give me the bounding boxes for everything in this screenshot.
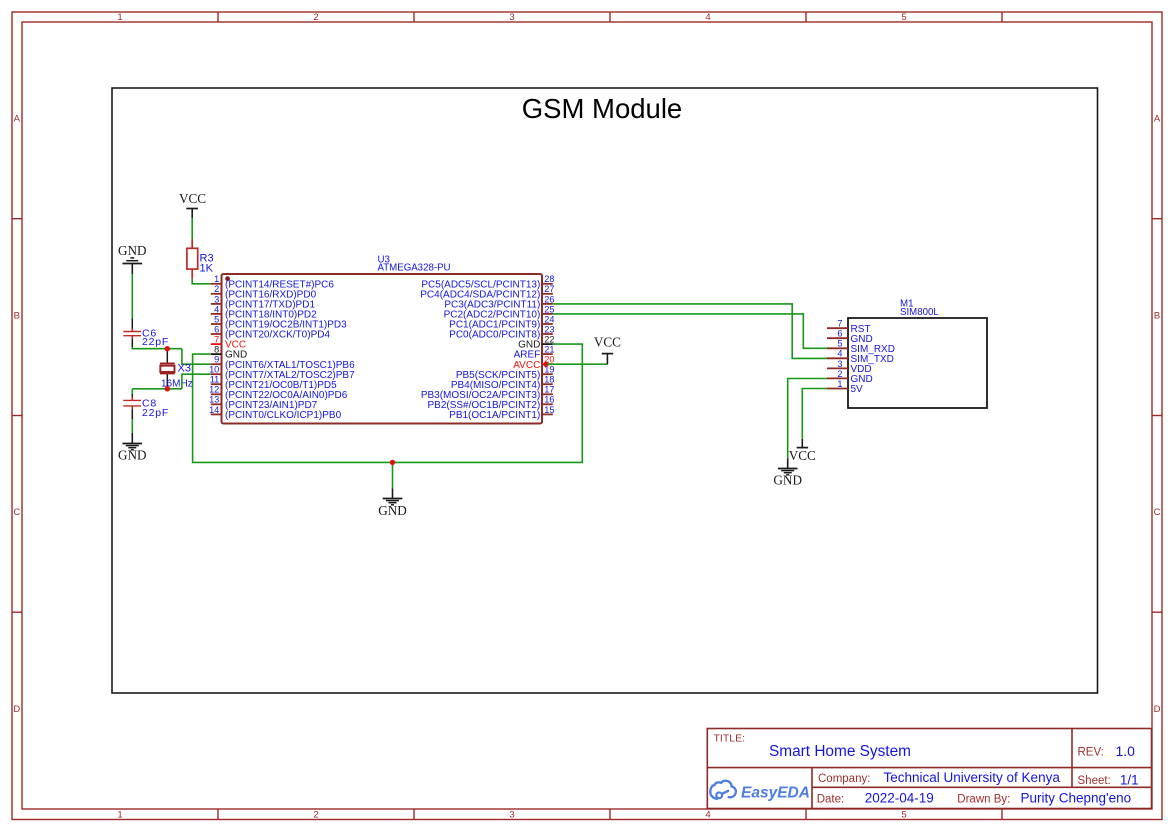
svg-text:2: 2 <box>214 284 219 294</box>
svg-text:Technical University of Kenya: Technical University of Kenya <box>884 770 1061 785</box>
svg-text:5V: 5V <box>851 384 864 395</box>
svg-text:18: 18 <box>544 375 554 385</box>
wire M1 pin 2 GND down <box>788 379 827 459</box>
wire GND to C6 <box>131 274 133 318</box>
svg-text:D: D <box>13 704 20 715</box>
capacitor C6 22pF <box>123 318 169 348</box>
svg-text:GND: GND <box>773 473 802 488</box>
IC U3 ATMEGA328-PU <box>209 254 554 423</box>
svg-text:25: 25 <box>544 304 554 314</box>
svg-text:1: 1 <box>117 12 122 23</box>
wire crystal node to C8 <box>132 388 182 390</box>
svg-text:Company:: Company: <box>818 773 870 785</box>
svg-text:14: 14 <box>209 405 219 415</box>
junction node on U3 pin 20 AVCC <box>543 362 548 367</box>
wire M1 pin 1 5V down <box>802 389 827 439</box>
svg-text:5: 5 <box>837 339 842 349</box>
svg-text:3: 3 <box>509 810 514 821</box>
wire VCC to R3 <box>191 218 193 239</box>
svg-text:1K: 1K <box>200 263 214 275</box>
wire node to U3 pin 10 (XTAL2) <box>182 374 211 389</box>
power flag VCC (top left) <box>179 191 206 218</box>
svg-text:4: 4 <box>705 12 710 23</box>
svg-text:10: 10 <box>209 365 219 375</box>
crystal X3 16MHz <box>160 349 193 390</box>
junction node XTAL2 <box>165 386 170 391</box>
title block <box>707 729 1151 809</box>
power flag VCC (near AREF) <box>594 334 621 364</box>
svg-text:5: 5 <box>901 810 906 821</box>
ground GND (near M1) <box>773 459 802 488</box>
svg-text:4: 4 <box>705 810 710 821</box>
svg-text:17: 17 <box>544 385 554 395</box>
wire AVCC to VCC flag <box>547 363 607 365</box>
svg-text:VCC: VCC <box>179 191 206 206</box>
svg-text:11: 11 <box>210 375 220 385</box>
ground GND (top left, above C6) <box>118 243 147 274</box>
svg-text:22: 22 <box>544 335 554 345</box>
svg-text:7: 7 <box>214 335 219 345</box>
junction node XTAL1 <box>165 346 170 351</box>
svg-text:3: 3 <box>837 359 842 369</box>
svg-text:Smart Home System: Smart Home System <box>769 743 911 760</box>
wire rail to ground symbol <box>392 462 394 488</box>
svg-text:Date:: Date: <box>817 794 845 806</box>
title block value 1.0 <box>1116 743 1136 759</box>
title block label Drawn By <box>957 794 1010 806</box>
ground GND (bottom center) <box>378 488 407 517</box>
svg-text:3: 3 <box>509 12 514 23</box>
title block value Purity Chepng&#39;eno <box>1021 791 1132 806</box>
svg-text:VCC: VCC <box>789 448 816 463</box>
svg-text:PB1(OC1A/PCINT1): PB1(OC1A/PCINT1) <box>449 410 540 421</box>
title block value 2022-04-19 <box>865 791 934 806</box>
svg-text:A: A <box>1154 114 1161 125</box>
EasyEDA logo <box>710 781 810 802</box>
svg-text:24: 24 <box>544 314 554 324</box>
svg-text:28: 28 <box>544 274 554 284</box>
svg-text:2: 2 <box>313 810 318 821</box>
sheet title: GSM Module <box>522 93 682 124</box>
svg-text:5: 5 <box>214 314 219 324</box>
svg-text:(PCINT0/CLKO/ICP1)PB0: (PCINT0/CLKO/ICP1)PB0 <box>225 410 342 421</box>
wire U3 pin 25 PC2 to M1 SIM_RXD <box>553 314 827 348</box>
wire R3 to U3 pin 1 <box>192 279 211 284</box>
svg-text:GND: GND <box>118 448 147 463</box>
svg-text:REV:: REV: <box>1078 746 1104 758</box>
power flag VCC (near M1) <box>789 439 816 463</box>
svg-text:1: 1 <box>117 810 122 821</box>
svg-text:2: 2 <box>837 369 842 379</box>
title block label Sheet <box>1078 775 1111 787</box>
svg-text:9: 9 <box>214 355 219 365</box>
title block label Company <box>818 773 870 785</box>
svg-text:8: 8 <box>214 345 219 355</box>
svg-text:GND: GND <box>118 243 147 258</box>
svg-text:6: 6 <box>837 329 842 339</box>
svg-text:23: 23 <box>544 324 554 334</box>
svg-text:A: A <box>14 114 21 125</box>
wire U3 pin 8 GND to bottom rail <box>193 344 583 462</box>
svg-text:27: 27 <box>544 284 554 294</box>
ground GND (below C8) <box>118 433 147 463</box>
svg-text:B: B <box>14 310 20 321</box>
svg-text:GND: GND <box>378 503 407 518</box>
title block label TITLE <box>714 733 746 745</box>
title block value Smart Home System <box>769 743 911 760</box>
svg-text:1.0: 1.0 <box>1116 743 1136 759</box>
svg-text:7: 7 <box>837 319 842 329</box>
svg-text:ATMEGA328-PU: ATMEGA328-PU <box>378 263 451 274</box>
svg-text:C: C <box>1154 507 1161 518</box>
wire node to U3 pin 9 (XTAL1) <box>182 349 211 365</box>
svg-text:Drawn By:: Drawn By: <box>957 794 1010 806</box>
svg-text:26: 26 <box>544 294 554 304</box>
title block value Technical University of Kenya <box>884 770 1061 785</box>
svg-text:1/1: 1/1 <box>1120 773 1139 788</box>
svg-text:6: 6 <box>214 324 219 334</box>
svg-text:TITLE:: TITLE: <box>714 733 746 745</box>
svg-text:1: 1 <box>837 379 842 389</box>
wire C6 to crystal node <box>132 348 182 349</box>
schematic sheet border <box>112 88 1098 693</box>
svg-text:Sheet:: Sheet: <box>1078 775 1111 787</box>
wire C8 to ground <box>131 419 133 433</box>
svg-text:VCC: VCC <box>594 334 621 349</box>
svg-text:B: B <box>1154 310 1160 321</box>
svg-text:EasyEDA: EasyEDA <box>741 785 810 802</box>
title block label Date <box>817 794 845 806</box>
svg-text:GSM Module: GSM Module <box>522 93 682 124</box>
svg-text:1: 1 <box>214 274 219 284</box>
svg-text:13: 13 <box>209 395 219 405</box>
svg-text:X3: X3 <box>178 363 191 375</box>
resistor R3 1K <box>187 239 214 279</box>
svg-text:4: 4 <box>214 304 219 314</box>
junction node bottom GND rail <box>390 460 395 465</box>
svg-text:4: 4 <box>837 349 842 359</box>
svg-text:15: 15 <box>544 405 554 415</box>
svg-text:12: 12 <box>209 385 219 395</box>
svg-text:3: 3 <box>214 294 219 304</box>
svg-text:16: 16 <box>544 395 554 405</box>
module M1 SIM800L <box>827 299 987 409</box>
svg-text:2: 2 <box>313 12 318 23</box>
svg-text:22pF: 22pF <box>142 336 169 348</box>
svg-text:22pF: 22pF <box>142 407 169 419</box>
wire U3 pin 26 PC3 to M1 SIM_TXD <box>553 304 827 359</box>
svg-text:21: 21 <box>544 345 554 355</box>
svg-text:2022-04-19: 2022-04-19 <box>865 791 934 806</box>
svg-text:Purity Chepng'eno: Purity Chepng'eno <box>1021 791 1132 806</box>
svg-text:SIM800L: SIM800L <box>900 307 939 318</box>
svg-text:5: 5 <box>901 12 906 23</box>
capacitor C8 22pF <box>123 389 169 419</box>
title block value 1/1 <box>1120 773 1139 788</box>
svg-text:D: D <box>1154 704 1161 715</box>
svg-text:C: C <box>13 507 20 518</box>
title block label REV <box>1078 746 1104 758</box>
